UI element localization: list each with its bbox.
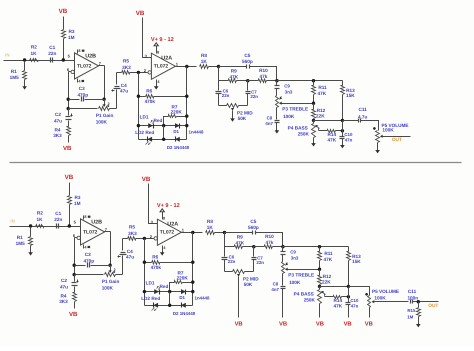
op-amp U2A TL072 bbox=[157, 219, 181, 245]
node R5/feedback junction bbox=[143, 237, 146, 240]
resistor R9 47K bbox=[219, 69, 248, 83]
svg-text:OUT: OUT bbox=[392, 137, 402, 143]
svg-text:560p: 560p bbox=[242, 59, 253, 64]
svg-text:R1: R1 bbox=[17, 235, 23, 240]
svg-text:47k: 47k bbox=[259, 74, 267, 79]
node R11/R12 junction bbox=[312, 102, 315, 105]
pin 3 (U2A +in) bbox=[145, 54, 148, 59]
svg-text:47u: 47u bbox=[120, 88, 128, 93]
resistor R4 3K3 bbox=[59, 293, 76, 309]
node R13 bottom junction bbox=[341, 119, 344, 122]
node R7 right bbox=[191, 280, 194, 283]
wiper of P5 to OUT bbox=[380, 135, 411, 138]
capacitor C7 22n bbox=[246, 81, 259, 106]
svg-text:R9: R9 bbox=[231, 69, 237, 74]
power VB (below R4) bbox=[69, 311, 78, 318]
svg-text:VB: VB bbox=[344, 322, 352, 328]
resistor R7 220K bbox=[164, 104, 187, 125]
svg-text:R12: R12 bbox=[317, 108, 326, 113]
wire rail to R11/R13 bbox=[283, 246, 349, 248]
power VB (below P5) bbox=[365, 322, 373, 328]
node R8 right junction bbox=[217, 65, 220, 68]
svg-text:R2: R2 bbox=[31, 45, 37, 50]
wire feedback left vertical bbox=[144, 239, 146, 306]
node C3 left junction bbox=[67, 98, 70, 101]
node R12 bottom junction bbox=[312, 119, 315, 122]
svg-text:P3 TREBLE: P3 TREBLE bbox=[288, 272, 314, 277]
resistor R14 47K bbox=[325, 296, 349, 309]
wire pin6 down bbox=[68, 72, 70, 109]
svg-text:1M5: 1M5 bbox=[10, 75, 20, 80]
LED LD2 Red bbox=[141, 296, 160, 311]
pin 4 stub (U2B V-) bbox=[78, 79, 85, 84]
node R14 right junction bbox=[341, 129, 344, 132]
resistor R15 1M bbox=[407, 302, 420, 323]
node treble top junction bbox=[275, 79, 278, 82]
node R9/C7 junction bbox=[246, 79, 249, 82]
op-amp U2B TL072 bbox=[75, 53, 99, 79]
resistor R2 1K bbox=[36, 211, 44, 228]
svg-text:VB: VB bbox=[63, 145, 72, 152]
resistor R12 22K bbox=[318, 270, 332, 287]
node P5 top (bottom) bbox=[365, 293, 368, 296]
potentiometer P3 TREBLE 100K bbox=[282, 262, 315, 286]
node OUT (bottom channel) bbox=[428, 303, 438, 309]
power VB (below R4) bbox=[63, 145, 72, 152]
svg-text:C4: C4 bbox=[127, 249, 133, 254]
capacitor C6 22n bbox=[216, 81, 230, 106]
svg-text:C10: C10 bbox=[344, 132, 353, 137]
wiper of P2 to VB bbox=[237, 274, 240, 318]
capacitor C8 4n7 bbox=[271, 274, 285, 318]
svg-text:47K: 47K bbox=[323, 257, 332, 262]
svg-text:C2: C2 bbox=[55, 112, 61, 117]
node C3 right junction bbox=[102, 98, 105, 101]
pin 5 (U2B +in) bbox=[74, 219, 77, 224]
ground below P5 bbox=[375, 150, 380, 154]
potentiometer P4 BASS 250K bbox=[294, 287, 322, 318]
svg-text:U2A: U2A bbox=[167, 222, 178, 228]
svg-text:100K: 100K bbox=[374, 296, 386, 301]
svg-text:22K: 22K bbox=[322, 280, 331, 285]
svg-text:D1: D1 bbox=[173, 129, 179, 134]
node R8 right junction bbox=[223, 231, 226, 234]
svg-text:VB: VB bbox=[69, 311, 78, 318]
wiper of P2 to ground bbox=[231, 108, 234, 118]
svg-text:R4: R4 bbox=[55, 128, 61, 133]
svg-text:R9: R9 bbox=[237, 235, 243, 240]
ground below U2A bbox=[160, 251, 165, 256]
svg-text:VB: VB bbox=[316, 322, 324, 328]
svg-text:R5: R5 bbox=[123, 59, 129, 64]
resistor R9 47K bbox=[225, 235, 254, 249]
node row1 right bbox=[185, 124, 188, 127]
svg-text:100K: 100K bbox=[382, 128, 394, 133]
pin 8 stub (U2B V+) bbox=[78, 49, 85, 54]
pin 4 stub (U2B V-) bbox=[84, 245, 91, 250]
wiper of P5 (bottom) bbox=[372, 300, 409, 303]
wire rail to R11/R13 bbox=[277, 80, 343, 82]
svg-text:22n: 22n bbox=[256, 260, 264, 265]
svg-text:R15: R15 bbox=[407, 308, 416, 313]
resistor R12 22K bbox=[312, 104, 326, 121]
svg-text:1K: 1K bbox=[31, 51, 38, 56]
wire mid vertical bbox=[169, 292, 171, 306]
capacitor C7 22n bbox=[252, 247, 265, 272]
potentiometer P1 Gain 100K bbox=[75, 273, 123, 291]
node R3/input junction bbox=[68, 224, 71, 227]
wire LED row 2 bbox=[145, 305, 193, 307]
wire LED row 2 bbox=[139, 139, 187, 141]
svg-text:C2: C2 bbox=[61, 278, 67, 283]
svg-text:8: 8 bbox=[84, 215, 86, 219]
node R11 top junction bbox=[312, 79, 315, 82]
svg-text:U2B: U2B bbox=[91, 220, 102, 226]
wiper of P1 (from U2B out) bbox=[103, 100, 110, 108]
pin 3 (U2A +in) bbox=[151, 220, 154, 225]
svg-text:R11: R11 bbox=[318, 85, 327, 90]
svg-text:C1: C1 bbox=[49, 45, 55, 50]
power arrow to pin 8 bbox=[154, 43, 158, 49]
wiper of P4 bbox=[322, 291, 326, 297]
ground below C10 bbox=[340, 145, 345, 149]
capacitor C11 100n bbox=[407, 289, 438, 304]
power VB (below C10) bbox=[344, 322, 352, 328]
svg-text:LD2 Red: LD2 Red bbox=[135, 130, 154, 135]
svg-text:100K: 100K bbox=[102, 285, 114, 290]
resistor R8 1K bbox=[200, 53, 219, 68]
svg-text:22n: 22n bbox=[54, 217, 62, 222]
svg-text:R2: R2 bbox=[37, 211, 43, 216]
svg-text:47n: 47n bbox=[345, 138, 353, 143]
resistor R10 47k bbox=[248, 68, 277, 83]
node row2 mid bbox=[162, 138, 165, 141]
capacitor C10 47n bbox=[340, 132, 353, 145]
resistor R1 1M5 bbox=[16, 227, 33, 250]
wire U2A out bbox=[176, 66, 197, 68]
svg-text:TL072: TL072 bbox=[160, 229, 175, 235]
pin 1 (U2A out) bbox=[182, 228, 185, 233]
capacitor C9 3n3 bbox=[275, 81, 293, 96]
capacitor C6 22n bbox=[222, 247, 236, 272]
svg-text:R8: R8 bbox=[201, 53, 207, 58]
node OUT (top channel) bbox=[392, 137, 402, 143]
ground below C8 bbox=[275, 129, 280, 134]
pin 6 (U2B -in) bbox=[67, 67, 75, 74]
power VB (R3 top) bbox=[65, 174, 74, 181]
node treble top junction bbox=[281, 245, 284, 248]
svg-text:470k: 470k bbox=[145, 99, 156, 104]
svg-text:47n: 47n bbox=[351, 304, 359, 309]
node R3/input junction bbox=[62, 58, 65, 61]
node U2A out junction bbox=[185, 65, 188, 68]
capacitor C3 470p bbox=[69, 86, 105, 102]
node P5 top bbox=[373, 127, 376, 130]
svg-text:VB: VB bbox=[136, 10, 145, 17]
svg-text:47u: 47u bbox=[54, 118, 62, 123]
node P1 left junction bbox=[67, 107, 70, 110]
node input junction bbox=[23, 58, 26, 61]
resistor R13 15K bbox=[347, 247, 362, 287]
svg-text:V+ 9 - 12: V+ 9 - 12 bbox=[157, 203, 180, 209]
node R12 bottom junction bbox=[318, 285, 321, 288]
svg-text:D2 1N4448: D2 1N4448 bbox=[167, 145, 190, 150]
wire R13 column bbox=[342, 121, 344, 137]
wiper of P1 (from U2B out) bbox=[109, 266, 116, 274]
capacitor C8 4n7 bbox=[265, 108, 279, 129]
node IN (input) bbox=[5, 52, 9, 57]
power VB (R3 top) bbox=[59, 8, 68, 15]
svg-text:1M: 1M bbox=[68, 35, 75, 40]
resistor R3 1M bbox=[68, 183, 81, 227]
svg-text:U2A: U2A bbox=[161, 56, 172, 62]
node input junction bbox=[29, 224, 32, 227]
svg-text:P4 BASS: P4 BASS bbox=[294, 292, 314, 297]
svg-text:100n: 100n bbox=[407, 295, 418, 300]
wire VB to pin 3 bbox=[143, 18, 152, 58]
wire R12 junction to R13 column bbox=[314, 120, 343, 122]
svg-text:1K: 1K bbox=[37, 217, 44, 222]
node row1 left bbox=[137, 124, 140, 127]
svg-text:1M: 1M bbox=[74, 201, 81, 206]
svg-text:Red: Red bbox=[153, 118, 162, 123]
svg-text:3K3: 3K3 bbox=[128, 231, 137, 236]
svg-text:47K: 47K bbox=[327, 137, 336, 142]
svg-text:P2 MID: P2 MID bbox=[243, 277, 259, 282]
svg-text:1M5: 1M5 bbox=[16, 241, 26, 246]
node R6 right bbox=[185, 95, 188, 98]
svg-text:15K: 15K bbox=[352, 259, 361, 264]
capacitor C5 560p bbox=[219, 53, 277, 80]
svg-text:IN: IN bbox=[5, 52, 9, 57]
wire input line bbox=[10, 226, 81, 228]
svg-text:P2 MID: P2 MID bbox=[237, 111, 253, 116]
svg-text:C4: C4 bbox=[121, 83, 127, 88]
svg-text:15K: 15K bbox=[346, 93, 355, 98]
wire U2B out down bbox=[99, 66, 105, 100]
svg-text:R6: R6 bbox=[146, 88, 152, 93]
svg-text:50K: 50K bbox=[244, 282, 253, 287]
svg-text:8: 8 bbox=[157, 50, 159, 54]
wire LED row 1 bbox=[145, 291, 193, 293]
LED LD1 Red bbox=[140, 115, 163, 129]
op-amp U2B TL072 bbox=[81, 219, 105, 245]
svg-text:1M: 1M bbox=[407, 315, 413, 320]
pin 2 (U2A -in) bbox=[144, 68, 152, 74]
LED LD1 Red bbox=[146, 281, 169, 295]
potentiometer P3 TREBLE 100K bbox=[276, 96, 309, 120]
capacitor C2 47u bbox=[54, 109, 73, 127]
svg-text:C5: C5 bbox=[244, 53, 250, 58]
wire feedback right vertical bbox=[192, 233, 194, 306]
svg-text:R14: R14 bbox=[327, 132, 336, 137]
wire feedback right vertical bbox=[186, 67, 188, 140]
svg-text:R3: R3 bbox=[75, 195, 81, 200]
power arrow to pin 8 bbox=[160, 209, 164, 215]
svg-text:250K: 250K bbox=[298, 131, 310, 136]
svg-text:LD1: LD1 bbox=[140, 115, 149, 120]
node R6 left bbox=[143, 261, 146, 264]
pin 8 stub (U2A V+) bbox=[157, 49, 160, 55]
pin 8 stub (U2B V+) bbox=[84, 215, 91, 220]
wire to P5 (bottom) bbox=[349, 287, 370, 296]
svg-text:VB: VB bbox=[65, 174, 74, 181]
wire down to RC rail bbox=[224, 233, 226, 247]
svg-text:C3: C3 bbox=[79, 86, 85, 91]
power VB (U2A pin3) bbox=[142, 176, 151, 183]
svg-text:P1 Gain: P1 Gain bbox=[96, 113, 114, 118]
svg-text:C11: C11 bbox=[359, 107, 368, 112]
ground below R1 bbox=[28, 250, 33, 256]
power VB (U2A pin3) bbox=[136, 10, 145, 17]
node R14 right junction bbox=[347, 295, 350, 298]
capacitor C1 22n bbox=[54, 211, 62, 229]
pin 7 (U2B out) bbox=[99, 61, 102, 66]
node row2 mid bbox=[168, 304, 171, 307]
svg-text:3K3: 3K3 bbox=[59, 299, 68, 304]
svg-text:22n: 22n bbox=[250, 94, 258, 99]
svg-text:470p: 470p bbox=[77, 92, 88, 97]
capacitor C11 4.7u bbox=[343, 107, 379, 131]
LED LD2 Red bbox=[135, 130, 154, 145]
node R7 right bbox=[185, 114, 188, 117]
svg-text:47K: 47K bbox=[333, 303, 342, 308]
pin 7 (U2B out) bbox=[105, 227, 108, 232]
resistor R2 1K bbox=[30, 45, 39, 62]
node row1 mid bbox=[162, 124, 165, 127]
svg-text:VB: VB bbox=[142, 176, 151, 183]
wire mid vertical bbox=[163, 126, 165, 140]
svg-text:4n7: 4n7 bbox=[265, 121, 273, 126]
svg-text:R6: R6 bbox=[152, 254, 158, 259]
wire down to RC rail bbox=[218, 67, 220, 81]
svg-text:LD1: LD1 bbox=[146, 281, 155, 286]
wire input line bbox=[4, 60, 75, 62]
resistor R5 3K3 bbox=[117, 59, 148, 75]
svg-text:D2 1N4448: D2 1N4448 bbox=[173, 311, 196, 316]
potentiometer P5 VOLUME 100K (bottom) bbox=[368, 289, 400, 318]
capacitor C3 470p bbox=[75, 252, 111, 268]
svg-text:R8: R8 bbox=[207, 219, 213, 224]
svg-text:C9: C9 bbox=[284, 83, 290, 88]
wiper of P4 bbox=[316, 125, 320, 131]
node P1 left junction bbox=[73, 273, 76, 276]
wire treble wiper bbox=[285, 268, 320, 271]
resistor R10 47k bbox=[254, 234, 283, 249]
svg-text:D1: D1 bbox=[179, 295, 185, 300]
svg-text:Red: Red bbox=[159, 284, 168, 289]
svg-text:IN: IN bbox=[10, 218, 14, 223]
resistor R13 15K bbox=[341, 81, 356, 121]
capacitor C2 47u bbox=[60, 275, 79, 293]
node C3 right junction bbox=[108, 264, 111, 267]
svg-text:P5 VOLUME: P5 VOLUME bbox=[372, 289, 399, 294]
svg-text:C11: C11 bbox=[408, 289, 417, 294]
svg-text:8: 8 bbox=[78, 49, 80, 53]
wire R12 junction to R13 column bbox=[320, 286, 349, 288]
pin 2 (U2A -in) bbox=[150, 234, 158, 240]
svg-text:560p: 560p bbox=[248, 225, 259, 230]
ground below R1 bbox=[22, 84, 27, 90]
potentiometer P2 MID 50K bbox=[225, 270, 260, 288]
svg-text:LD2 Red: LD2 Red bbox=[141, 296, 160, 301]
svg-text:8: 8 bbox=[163, 216, 165, 220]
node R15 junction bbox=[417, 300, 420, 303]
svg-text:C10: C10 bbox=[350, 298, 359, 303]
svg-text:50K: 50K bbox=[238, 116, 247, 121]
pin 6 (U2B -in) bbox=[73, 233, 81, 240]
node R9/C7 junction bbox=[252, 245, 255, 248]
pin 8 stub (U2A V+) bbox=[163, 215, 166, 221]
node R5/feedback junction bbox=[137, 71, 140, 74]
svg-text:P1 Gain: P1 Gain bbox=[102, 279, 120, 284]
resistor R3 1M bbox=[62, 17, 75, 61]
capacitor C4 47u bbox=[112, 73, 129, 109]
svg-text:470k: 470k bbox=[151, 265, 162, 270]
svg-text:470p: 470p bbox=[83, 258, 94, 263]
node C3 left junction bbox=[73, 264, 76, 267]
svg-text:P4 BASS: P4 BASS bbox=[288, 126, 308, 131]
node IN (input) bbox=[10, 218, 14, 223]
svg-text:R5: R5 bbox=[129, 225, 135, 230]
svg-text:TL072: TL072 bbox=[83, 230, 98, 236]
svg-text:220K: 220K bbox=[177, 275, 189, 280]
pin 4 stub (U2A V-) bbox=[163, 246, 167, 251]
resistor R4 3K3 bbox=[53, 127, 70, 143]
capacitor C9 3n3 bbox=[281, 247, 299, 262]
resistor R5 3K3 bbox=[123, 225, 154, 241]
ground below P4 bbox=[311, 142, 316, 147]
resistor R1 1M5 bbox=[10, 61, 27, 84]
svg-text:C9: C9 bbox=[290, 249, 296, 254]
node R13 bottom junction bbox=[347, 285, 350, 288]
wire pin6 down bbox=[74, 238, 76, 275]
svg-text:22K: 22K bbox=[316, 114, 325, 119]
svg-text:3n3: 3n3 bbox=[285, 89, 293, 94]
resistor R11 47K bbox=[312, 81, 328, 104]
svg-text:R1: R1 bbox=[11, 69, 17, 74]
wire R13 column bbox=[348, 287, 350, 303]
node R11/R12 junction bbox=[318, 268, 321, 271]
node R11 top junction bbox=[318, 245, 321, 248]
svg-text:22n: 22n bbox=[48, 51, 56, 56]
power V+ 9 - 12 bbox=[157, 203, 180, 209]
resistor R14 47K bbox=[319, 130, 343, 143]
capacitor C4 47u bbox=[118, 239, 135, 275]
svg-text:R4: R4 bbox=[61, 294, 67, 299]
power VB (below P2 wiper) bbox=[235, 322, 243, 328]
svg-text:R14: R14 bbox=[333, 298, 342, 303]
op-amp U2A TL072 bbox=[151, 53, 175, 79]
wire feedback left vertical bbox=[138, 73, 140, 140]
pin 5 (U2B +in) bbox=[68, 53, 71, 58]
svg-text:V+ 9 - 12: V+ 9 - 12 bbox=[151, 37, 174, 43]
potentiometer P4 BASS 250K bbox=[288, 121, 316, 142]
svg-text:R11: R11 bbox=[324, 251, 333, 256]
svg-text:R10: R10 bbox=[265, 234, 274, 239]
ground below R15 bbox=[416, 323, 421, 328]
node row1 left bbox=[143, 290, 146, 293]
svg-text:250K: 250K bbox=[304, 297, 316, 302]
power VB (below C8) bbox=[279, 322, 287, 328]
svg-text:C3: C3 bbox=[85, 252, 91, 257]
svg-text:C1: C1 bbox=[55, 211, 61, 216]
svg-text:1K: 1K bbox=[207, 225, 214, 230]
diode D2 1N4448 bbox=[173, 303, 196, 316]
node U2A out junction bbox=[191, 231, 194, 234]
svg-text:VB: VB bbox=[365, 322, 373, 328]
svg-text:OUT: OUT bbox=[428, 303, 438, 309]
